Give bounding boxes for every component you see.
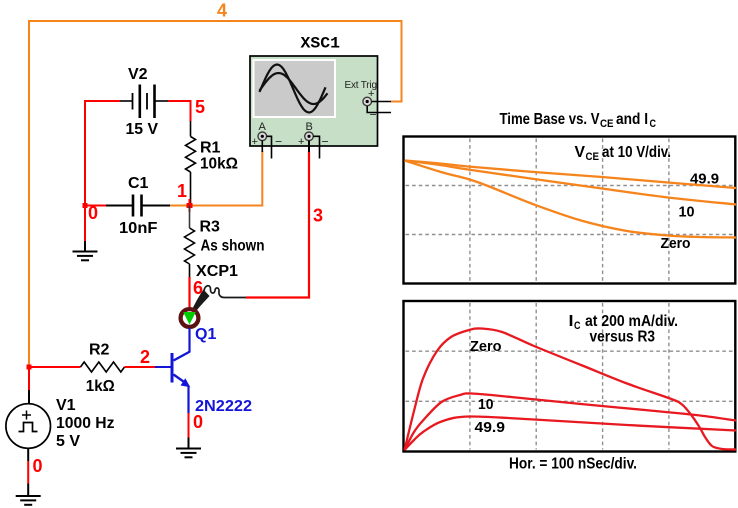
svg-text:10: 10: [679, 204, 695, 221]
svg-text:2: 2: [140, 347, 150, 367]
svg-text:V1: V1: [56, 397, 76, 414]
svg-text:4: 4: [217, 1, 227, 21]
svg-text:and I: and I: [616, 111, 648, 128]
svg-text:at 200 mA/div.: at 200 mA/div.: [585, 313, 678, 330]
wire: V1 bottom to ground: [27, 448, 29, 496]
svg-text:15 V: 15 V: [126, 121, 159, 138]
svg-text:−: −: [322, 135, 329, 149]
graph 1 label: VCE at 10 V/div.: [575, 144, 672, 163]
wire: red junction down to V1: [28, 367, 30, 390]
wire net 3: probe coil to scope channel B: [246, 151, 309, 298]
svg-text:R3: R3: [200, 219, 221, 236]
svg-text:C1: C1: [128, 175, 149, 192]
wire: orange node 1 to scope channel A: [170, 151, 262, 206]
oscilloscope waveform (outer sine): [260, 65, 326, 113]
svg-text:0: 0: [88, 203, 98, 223]
svg-text:C: C: [650, 118, 657, 130]
svg-text:+: +: [298, 136, 304, 148]
Ext Trig terminal: [363, 97, 372, 106]
svg-text:CE: CE: [600, 118, 614, 130]
svg-text:Zero: Zero: [661, 235, 691, 252]
channel A stub wires: [262, 136, 271, 158]
svg-text:−: −: [275, 135, 282, 149]
wire node 5: battery right to R1 top: [168, 101, 191, 121]
graph 1 curve: VCE 49.9: [405, 161, 737, 189]
graph 1 curve: VCE 10: [405, 161, 737, 205]
ground (V1): [16, 496, 41, 505]
channel B terminal: [305, 132, 314, 141]
svg-text:1: 1: [177, 181, 187, 201]
wire: emitter to ground: [188, 413, 190, 449]
battery V2: [120, 85, 168, 119]
wire: red junction to R2: [29, 366, 81, 368]
node 1 junction dot: [187, 199, 193, 212]
svg-text:10: 10: [478, 396, 494, 413]
svg-text:5 V: 5 V: [56, 433, 80, 450]
svg-text:Time Base vs. V: Time Base vs. V: [500, 111, 601, 128]
transistor Q1 (NPN 2N2222): [171, 328, 191, 413]
svg-text:B: B: [306, 121, 313, 133]
graph 1 frame (Time Base vs VCE): [404, 137, 736, 284]
svg-text:1kΩ: 1kΩ: [86, 378, 115, 395]
svg-text:A: A: [259, 121, 267, 133]
oscilloscope screen: [254, 60, 336, 117]
svg-text:2N2222: 2N2222: [195, 398, 252, 415]
graph 2 frame (IC versus R3): [404, 301, 736, 452]
graph 2 label: IC at 200 mA/div.: [569, 313, 679, 332]
svg-text:CE: CE: [586, 151, 600, 163]
svg-text:Zero: Zero: [470, 338, 502, 355]
svg-text:1000 Hz: 1000 Hz: [56, 415, 115, 432]
svg-text:XSC1: XSC1: [301, 35, 341, 53]
graph 1 curve: VCE Zero: [405, 161, 737, 238]
svg-text:3: 3: [313, 206, 323, 226]
svg-text:+: +: [368, 88, 374, 100]
graph 2 curve: IC 10: [405, 393, 737, 450]
ground (emitter): [176, 449, 201, 458]
svg-text:10nF: 10nF: [119, 220, 158, 237]
wire net 4: orange loop from junction up across top to scope Ext Trig: [29, 21, 402, 367]
wire node 2: R2 to Q1 base: [125, 366, 172, 368]
junction dot (net 4 / R2 / V1): [27, 365, 32, 370]
wire: red left rail (battery left to C1 left): [85, 101, 120, 206]
svg-text:R1: R1: [200, 140, 221, 157]
oscilloscope waveform (inner sine): [260, 73, 328, 104]
graph 2 curve: IC Zero: [405, 328, 737, 450]
svg-text:versus R3: versus R3: [590, 329, 656, 346]
svg-text:Hor. = 100 nSec/div.: Hor. = 100 nSec/div.: [509, 456, 637, 473]
graph 1 title: Time Base vs. VCE and IC: [500, 111, 657, 130]
svg-text:Q1: Q1: [195, 326, 216, 343]
source V1 (square wave source): [6, 404, 51, 449]
svg-text:49.9: 49.9: [475, 419, 506, 436]
svg-text:C: C: [574, 320, 581, 332]
oscilloscope XSC1 body: [250, 56, 378, 146]
channel B stub wires: [309, 136, 320, 158]
junction dot node 0 (left rail): [83, 203, 88, 208]
svg-text:R2: R2: [89, 342, 110, 359]
svg-text:V: V: [575, 144, 586, 161]
current probe XCP1 (clamp ring, green arrow, claw, coil lead): [181, 286, 246, 327]
channel A terminal: [258, 132, 267, 141]
svg-text:49.9: 49.9: [690, 171, 719, 188]
wire: red R3 to current probe: [188, 277, 190, 312]
resistor R3: [185, 206, 195, 278]
svg-text:0: 0: [33, 456, 43, 476]
svg-text:+: +: [252, 136, 258, 148]
svg-text:As shown: As shown: [201, 238, 265, 255]
graph 2 curve: IC 49.9: [405, 416, 737, 450]
capacitor C1: [106, 195, 170, 217]
svg-text:10kΩ: 10kΩ: [200, 156, 238, 173]
svg-text:0: 0: [193, 412, 203, 432]
svg-text:V2: V2: [128, 66, 148, 83]
resistor R1: [186, 121, 196, 206]
svg-text:5: 5: [195, 97, 205, 117]
wire: red rail junction 0 down to ground: [84, 206, 86, 242]
resistor R2: [81, 362, 125, 372]
svg-text:−: −: [370, 108, 377, 122]
Ext Trig stub wires: [367, 102, 391, 113]
svg-text:at 10 V/div.: at 10 V/div.: [602, 144, 671, 161]
svg-text:I: I: [569, 313, 574, 330]
ground (below C1 rail): [73, 241, 98, 260]
